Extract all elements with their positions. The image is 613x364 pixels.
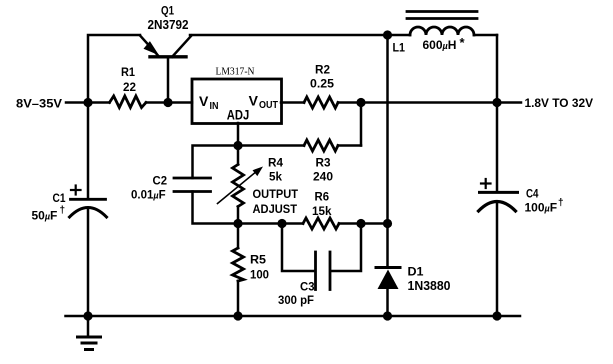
svg-text:C3: C3 [300,279,315,293]
svg-text:R1: R1 [121,65,135,79]
svg-text:V: V [199,93,209,109]
svg-text:R5: R5 [250,253,266,267]
svg-text:0.01µF: 0.01µF [131,190,166,202]
svg-text:100: 100 [250,268,269,282]
svg-text:L1: L1 [393,40,406,54]
svg-text:LM317-N: LM317-N [216,67,255,78]
svg-text:C1: C1 [53,191,66,205]
svg-text:OUTPUT: OUTPUT [253,187,299,201]
svg-text:ADJUST: ADJUST [253,202,298,216]
svg-text:0.25: 0.25 [310,77,334,91]
svg-text:†: † [60,205,66,216]
svg-text:100µF: 100µF [525,201,558,215]
svg-text:22: 22 [123,80,136,94]
svg-text:IN: IN [210,100,219,112]
svg-text:2N3792: 2N3792 [148,18,189,32]
svg-text:15k: 15k [312,204,332,218]
svg-text:R4: R4 [268,155,283,169]
svg-text:Q1: Q1 [161,4,174,18]
svg-text:8V–35V: 8V–35V [16,97,62,111]
svg-text:300 pF: 300 pF [278,293,314,307]
svg-text:V: V [249,93,259,109]
svg-text:C2: C2 [153,174,168,188]
svg-text:R3: R3 [316,155,331,169]
svg-text:240: 240 [313,170,333,184]
svg-text:1N3880: 1N3880 [408,279,451,293]
svg-text:OUT: OUT [259,99,278,111]
svg-text:†: † [558,198,564,209]
svg-text:ADJ: ADJ [227,108,250,123]
svg-text:5k: 5k [269,170,282,184]
svg-text:1.8V TO 32V: 1.8V TO 32V [525,96,594,110]
svg-text:R6: R6 [315,190,330,204]
svg-text:50µF: 50µF [32,209,58,223]
svg-text:R2: R2 [315,63,330,77]
svg-text:C4: C4 [526,186,539,200]
svg-text:600µH: 600µH [423,38,457,52]
svg-text:D1: D1 [408,264,424,278]
